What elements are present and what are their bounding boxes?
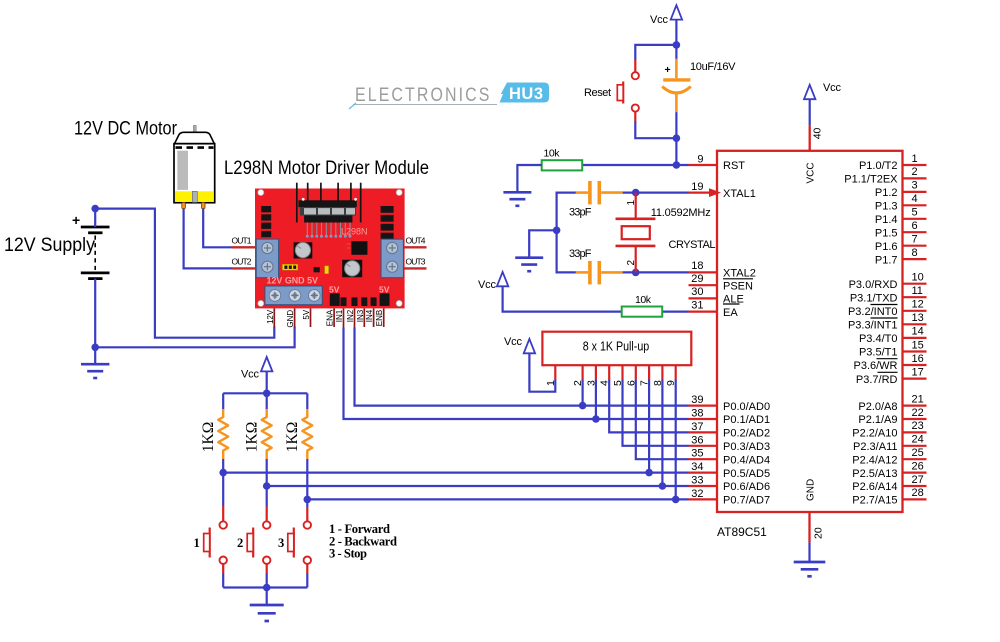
heatsink pins above board (297, 183, 361, 223)
svg-text:15: 15 (912, 339, 924, 351)
node battery plus (91, 205, 99, 213)
svg-text:1: 1 (545, 380, 557, 386)
overlines P3 names (871, 304, 898, 306)
svg-text:P3.0/RXD: P3.0/RXD (849, 279, 898, 291)
wire pin3 to P0.1 (595, 380, 597, 420)
header ENA (330, 293, 340, 306)
pin 40 VCC (809, 125, 811, 151)
svg-text:P1.2: P1.2 (875, 187, 898, 199)
svg-text:P0.3/AD3: P0.3/AD3 (723, 441, 770, 453)
mounting hole bottom-right (396, 300, 402, 306)
svg-text:2: 2 (626, 260, 637, 266)
svg-text:11.0592MHz: 11.0592MHz (651, 207, 711, 219)
svg-text:33pF: 33pF (569, 248, 592, 260)
wire pin6 to P0.4 (636, 380, 689, 460)
svg-text:33pF: 33pF (569, 207, 592, 219)
motor bottom tab (192, 191, 197, 202)
svg-text:6: 6 (912, 220, 918, 232)
svg-text:36: 36 (691, 434, 703, 446)
svg-text:XTAL2: XTAL2 (723, 268, 756, 280)
svg-text:1KΩ: 1KΩ (284, 422, 301, 452)
ground buttons (250, 605, 284, 621)
svg-text:5V: 5V (302, 309, 311, 319)
node battery minus bus (91, 344, 99, 352)
pin OUT1 stub (232, 246, 256, 248)
crystal oscillator section (515, 181, 715, 284)
mounting hole bottom-left (258, 300, 264, 306)
svg-text:Vcc: Vcc (241, 369, 260, 381)
left pin stubs (689, 165, 718, 499)
wire P0.6 line (267, 485, 689, 487)
svg-text:3 - Stop: 3 - Stop (329, 547, 367, 561)
svg-text:11: 11 (912, 285, 923, 297)
node XTAL2 (632, 269, 640, 277)
left smd capacitors (261, 206, 271, 237)
svg-text:VCC: VCC (806, 162, 817, 183)
wire Vcc stem (266, 371, 268, 393)
wires buttons to bottom bus (223, 573, 307, 605)
svg-text:P0.1/AD1: P0.1/AD1 (723, 414, 770, 426)
svg-text:23: 23 (912, 420, 924, 432)
svg-text:10: 10 (912, 272, 924, 284)
EA pull-down section (478, 272, 689, 317)
svg-text:19: 19 (691, 181, 703, 193)
switch actuator (622, 82, 624, 104)
svg-text:14: 14 (912, 326, 924, 338)
wire red to switch top (634, 60, 636, 72)
svg-text:+: + (72, 212, 80, 228)
smd ic (351, 241, 367, 255)
resistor R3 1K (302, 409, 312, 459)
svg-text:32: 32 (691, 488, 703, 500)
node reset top (673, 41, 681, 49)
overline EA (723, 303, 740, 305)
svg-text:10uF/16V: 10uF/16V (690, 61, 736, 73)
switch SW2 (237, 507, 270, 574)
battery plate short top (88, 231, 102, 234)
board pcb (255, 189, 405, 309)
battery 12V Supply (4, 205, 295, 378)
svg-text:40: 40 (812, 127, 824, 139)
resistor R2 1K (262, 409, 272, 459)
wire pin20 to ground (808, 542, 810, 562)
svg-text:5V: 5V (329, 284, 340, 294)
svg-text:22: 22 (912, 407, 924, 419)
ground crystal (515, 258, 543, 272)
svg-text:3: 3 (912, 180, 918, 192)
svg-text:1: 1 (912, 153, 918, 165)
svg-text:34: 34 (691, 461, 703, 473)
module bottom pin stubs (274, 308, 383, 327)
svg-text:35: 35 (691, 448, 703, 460)
svg-text:P2.0/A8: P2.0/A8 (858, 401, 897, 413)
wire R1 to junction (222, 459, 224, 506)
svg-text:HU3: HU3 (509, 85, 544, 103)
right pin names (844, 160, 898, 506)
svg-text:AT89C51: AT89C51 (717, 525, 767, 539)
pin 20 GND (808, 512, 810, 542)
svg-text:P0.6/AD6: P0.6/AD6 (723, 481, 770, 493)
wire red from switch bottom (634, 112, 636, 121)
svg-text:2: 2 (237, 536, 243, 550)
wire XTAL2 line (623, 271, 689, 273)
resistor R5 10k (622, 307, 663, 317)
wire 10k to ground (517, 165, 541, 192)
svg-text:24: 24 (912, 434, 924, 446)
svg-text:10k: 10k (544, 148, 561, 160)
yellow fuse smd (282, 264, 297, 270)
svg-text:25: 25 (912, 447, 924, 459)
svg-text:13: 13 (912, 312, 924, 324)
capacitor top view right (342, 260, 362, 277)
svg-text:ENA: ENA (326, 309, 335, 326)
svg-text:P0.7/AD7: P0.7/AD7 (723, 495, 770, 507)
svg-text:38: 38 (691, 408, 703, 420)
svg-text:IN3: IN3 (356, 309, 365, 322)
svg-text:21: 21 (912, 393, 924, 405)
ic pins row (307, 223, 350, 237)
wire ground bus to module GND pin (95, 327, 294, 348)
svg-text:IN1: IN1 (335, 309, 344, 322)
svg-text:8 x 1K Pull-up: 8 x 1K Pull-up (583, 340, 650, 354)
svg-text:P3.6/WR: P3.6/WR (853, 360, 897, 372)
svg-text:16: 16 (912, 353, 924, 365)
node pin2 P0.0 (579, 402, 587, 410)
svg-text:P3.5/T1: P3.5/T1 (859, 347, 898, 359)
resistor R1 1K (218, 409, 228, 459)
battery plate long bottom (81, 271, 110, 274)
crystal X1 11.0592MHz (635, 193, 637, 219)
heatsink fins (300, 207, 356, 215)
motor terminal right (201, 203, 205, 209)
svg-text:20: 20 (813, 527, 825, 539)
ground chip (794, 562, 826, 576)
svg-text:12V DC Motor: 12V DC Motor (74, 119, 178, 140)
motor shaft (193, 125, 196, 132)
svg-text:18: 18 (691, 260, 703, 272)
svg-text:5V: 5V (379, 284, 390, 294)
wire pin4 to P0.2 (609, 380, 688, 433)
svg-text:IN4: IN4 (365, 309, 374, 322)
switch SW-Reset contact top (632, 72, 639, 79)
capacitor C2 33pF (576, 271, 588, 274)
svg-text:1KΩ: 1KΩ (200, 422, 217, 452)
wire top bus (223, 392, 307, 394)
wire cap left bus (557, 193, 576, 273)
battery plate short bottom (88, 277, 102, 280)
pull-up pin labels (545, 380, 677, 386)
wire P0.7 line (307, 498, 688, 500)
power flag Vcc chip (804, 85, 815, 99)
node button2 (263, 482, 271, 490)
capacitor C1 33pF (576, 191, 588, 194)
wire motor right terminal to OUT1 (203, 209, 231, 248)
svg-text:4: 4 (912, 193, 918, 205)
svg-text:ENB: ENB (375, 310, 384, 326)
buttons input section (194, 357, 689, 621)
svg-text:37: 37 (691, 421, 703, 433)
switch SW3 (278, 507, 311, 573)
svg-text:Reset: Reset (584, 87, 611, 99)
svg-text:P1.7: P1.7 (875, 254, 898, 266)
right pin numbers (912, 153, 924, 499)
svg-text:2: 2 (912, 166, 918, 178)
svg-text:RST: RST (723, 160, 745, 172)
svg-text:Vcc: Vcc (478, 279, 497, 291)
svg-text:12V GND 5V: 12V GND 5V (267, 275, 319, 285)
svg-text:OUT2: OUT2 (232, 257, 252, 267)
wire R3 to junction (306, 459, 308, 507)
svg-text:P1.4: P1.4 (875, 214, 898, 226)
wire reset branch bottom (635, 121, 676, 138)
wire RST line (582, 164, 688, 166)
wire motor left terminal to OUT2 (184, 209, 232, 269)
svg-text:P0.5/AD5: P0.5/AD5 (723, 468, 770, 480)
svg-text:P2.3/A11: P2.3/A11 (853, 441, 897, 453)
wire IN1 to P0.1 line (344, 328, 689, 420)
resistor network RN1 8x1K pull-up (504, 332, 691, 504)
wire R2 to junction (266, 459, 268, 507)
svg-text:P1.0/T2: P1.0/T2 (859, 160, 898, 172)
svg-text:OUT1: OUT1 (232, 236, 252, 246)
svg-text:10k: 10k (635, 294, 652, 306)
wire battery minus down (94, 279, 96, 348)
heatsink lower bar (304, 216, 352, 223)
svg-text:P2.6/A14: P2.6/A14 (852, 481, 897, 493)
resistor R4 10k (542, 160, 583, 170)
ground reset (503, 192, 531, 206)
module pin labels (266, 309, 384, 327)
wire ground stem (94, 347, 96, 364)
motor terminal left (182, 203, 186, 209)
svg-text:33: 33 (691, 475, 703, 487)
header IN1-IN4 (341, 297, 347, 306)
wire P0.5 line (223, 472, 688, 474)
power flag Vcc pull-up (524, 339, 535, 353)
svg-text:P0.0/AD0: P0.0/AD0 (723, 401, 770, 413)
node XTAL1 (632, 189, 640, 197)
node pin9 P0.7 (672, 496, 680, 504)
left pin names (723, 160, 770, 506)
svg-text:ELECTRONICS: ELECTRONICS (355, 84, 492, 106)
svg-text:7: 7 (912, 234, 918, 246)
svg-text:29: 29 (691, 273, 703, 285)
svg-text:P3.1/TXD: P3.1/TXD (850, 292, 898, 304)
wire battery top stub (94, 209, 96, 227)
terminal block OUT1 OUT2 (256, 239, 278, 278)
module U2 L298N Motor Driver (224, 158, 689, 419)
switch SW-Reset contact bottom (632, 104, 639, 111)
wire pin9 to P0.7 (675, 380, 677, 500)
left pin numbers (691, 154, 703, 500)
svg-text:PSEN: PSEN (723, 280, 753, 292)
wire pin7 to P0.5 (648, 380, 650, 473)
svg-text:CRYSTAL: CRYSTAL (669, 239, 716, 251)
svg-text:P0.2/AD2: P0.2/AD2 (723, 428, 770, 440)
wire battery plus to module 12V pin (95, 209, 274, 338)
svg-text:30: 30 (691, 286, 703, 298)
svg-text:8: 8 (912, 247, 918, 259)
node bottom bus (263, 584, 271, 592)
node pin7 P0.5 (645, 469, 653, 477)
svg-text:P1.3: P1.3 (875, 201, 898, 213)
svg-text:IN2: IN2 (346, 309, 355, 322)
svg-text:P3.2/INT0: P3.2/INT0 (848, 306, 898, 318)
mounting hole top-right (396, 189, 402, 195)
svg-text:Vcc: Vcc (650, 14, 669, 26)
svg-text:1KΩ: 1KΩ (244, 422, 261, 452)
power flag Vcc EA (497, 272, 508, 286)
svg-text:P1.6: P1.6 (875, 241, 898, 253)
svg-text:P0.4/AD4: P0.4/AD4 (723, 454, 770, 466)
reset circuit (503, 5, 736, 206)
svg-text:P2.5/A13: P2.5/A13 (852, 468, 897, 480)
pin OUT2 stub (232, 267, 256, 269)
node pin3 P0.1 (592, 415, 600, 423)
overline PSEN (723, 278, 753, 280)
svg-text:P3.7/RD: P3.7/RD (856, 374, 898, 386)
svg-text:P2.7/A15: P2.7/A15 (852, 495, 897, 507)
svg-text:28: 28 (912, 487, 924, 499)
terminal block power (265, 286, 322, 305)
wire stems to resistors (223, 393, 307, 409)
motor top cap (175, 132, 215, 143)
wire IN2 to P0.0 line (355, 328, 689, 406)
heatsink top bar (298, 200, 356, 207)
svg-text:+: + (665, 64, 671, 76)
svg-text:L298N: L298N (341, 227, 368, 237)
motor gray slot (177, 151, 188, 190)
capacitor top view left (294, 242, 313, 258)
right pin stubs (903, 165, 927, 499)
battery plate long top (81, 226, 110, 229)
node pin8 P0.6 (659, 482, 667, 490)
svg-text:P1.5: P1.5 (875, 227, 898, 239)
power flag Vcc reset (671, 5, 682, 19)
motor M1 12V DC Motor (74, 119, 232, 269)
motor dashed line (176, 146, 214, 149)
battery internal dashed line (94, 236, 96, 271)
node button3 (304, 496, 312, 504)
svg-text:12: 12 (912, 299, 924, 311)
wire Vcc stem (675, 20, 677, 59)
right smd capacitors (381, 206, 394, 240)
node bus (553, 227, 561, 235)
terminal block OUT4 OUT3 (381, 239, 403, 278)
svg-text:P3.4/T0: P3.4/T0 (859, 333, 898, 345)
ground supply (81, 364, 109, 378)
svg-text:27: 27 (912, 474, 924, 486)
motor body (174, 144, 215, 203)
wire cap bottom to RST (675, 112, 677, 165)
svg-text:31: 31 (691, 299, 703, 311)
wire pin5 to P0.3 (623, 380, 689, 446)
svg-text:P3.3/INT1: P3.3/INT1 (848, 320, 898, 332)
node reset bottom (673, 134, 681, 142)
svg-text:L298N Motor Driver Module: L298N Motor Driver Module (224, 158, 429, 179)
motor yellow band (175, 191, 214, 202)
svg-text:P1.1/T2EX: P1.1/T2EX (844, 174, 898, 186)
wire Vcc to pin1 (529, 353, 555, 391)
wire pin8 to P0.6 (661, 380, 663, 487)
pin OUT3 stub (404, 267, 426, 269)
led yellow (325, 266, 329, 274)
svg-text:5: 5 (912, 207, 918, 219)
svg-text:OUT4: OUT4 (406, 236, 426, 246)
svg-text:Vcc: Vcc (504, 336, 523, 348)
svg-text:GND: GND (286, 310, 295, 328)
svg-text:1: 1 (626, 200, 637, 206)
wire bus to ground (529, 230, 556, 257)
pull-up pin stubs (555, 365, 675, 379)
small smd (314, 267, 320, 272)
svg-text:P2.1/A9: P2.1/A9 (858, 414, 897, 426)
svg-text:12V Supply: 12V Supply (4, 235, 95, 256)
capacitor C3 10uF/16V (675, 59, 678, 78)
switch SW1 (194, 506, 227, 573)
crystal input arrow XTAL1 (709, 188, 721, 197)
svg-text:Vcc: Vcc (823, 82, 842, 94)
svg-text:P2.2/A10: P2.2/A10 (852, 428, 897, 440)
ic U1 AT89C51 (689, 82, 927, 576)
svg-text:12V: 12V (266, 309, 275, 324)
header ENB (380, 293, 390, 306)
node RST junction (673, 161, 681, 169)
wire reset branch top (635, 45, 676, 60)
power flag Vcc buttons (261, 357, 272, 371)
svg-text:OUT3: OUT3 (406, 257, 426, 267)
node top bus (263, 390, 271, 398)
svg-text:1: 1 (194, 536, 200, 550)
mounting hole top-left (258, 189, 264, 195)
node button1 (219, 469, 227, 477)
svg-text:P2.4/A12: P2.4/A12 (852, 454, 897, 466)
svg-text:EA: EA (723, 307, 738, 319)
wire pin2 to P0.0 (581, 380, 583, 406)
svg-text:GND: GND (806, 479, 817, 501)
svg-text:3: 3 (278, 536, 284, 550)
wire XTAL1 line (623, 192, 689, 194)
svg-text:XTAL1: XTAL1 (723, 188, 756, 200)
wire Vcc to pin40 (809, 99, 811, 125)
svg-text:26: 26 (912, 460, 924, 472)
svg-text:9: 9 (697, 154, 703, 166)
svg-text:39: 39 (691, 394, 703, 406)
wire Vcc to 10k to EA (503, 286, 622, 311)
svg-text:17: 17 (912, 366, 924, 378)
logo Electronics Hub watermark (349, 83, 549, 110)
pin OUT4 stub (404, 246, 426, 248)
